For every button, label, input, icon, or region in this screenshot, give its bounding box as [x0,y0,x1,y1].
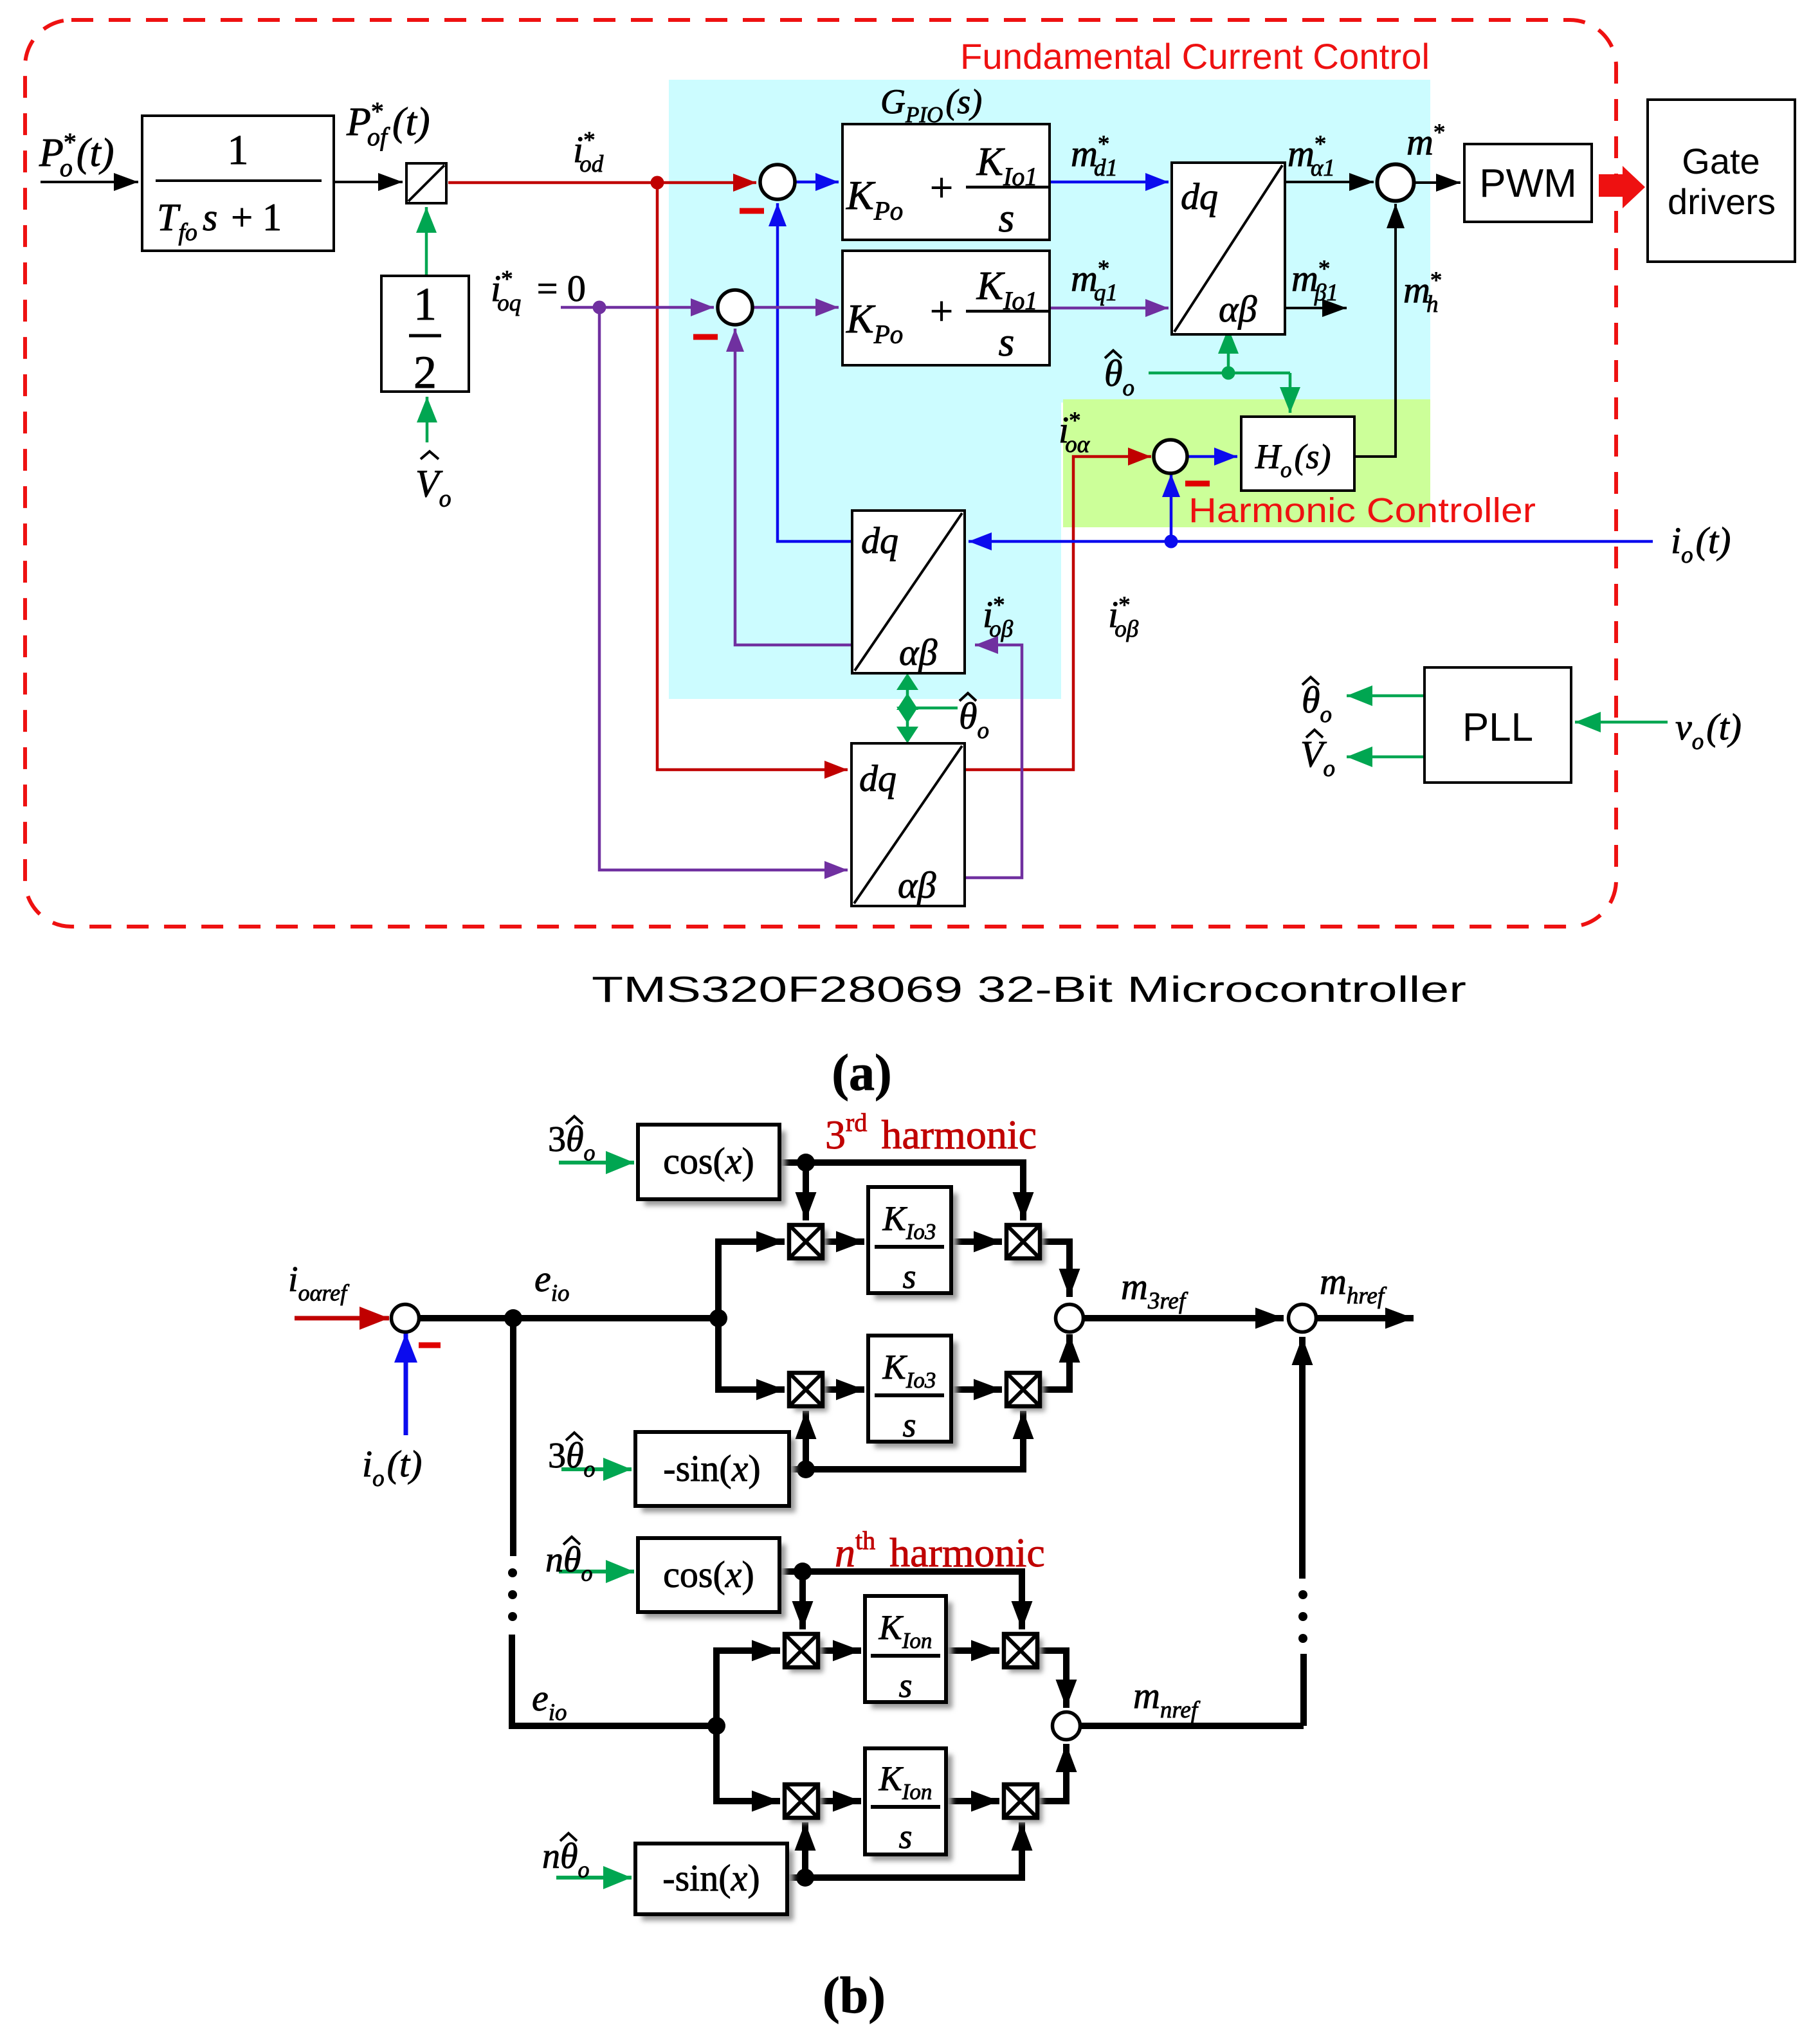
svg-text:Gate: Gate [1682,141,1760,181]
svg-text:s: s [902,1406,916,1444]
svg-text:i*oq = 0: i*oq = 0 [491,266,586,316]
svg-text:s: s [898,1666,912,1705]
svg-text:2: 2 [414,347,437,398]
svg-text:dq: dq [859,757,896,799]
svg-text:(b): (b) [823,1968,886,2024]
svg-text:αβ: αβ [1219,288,1257,330]
svg-text:1: 1 [228,127,249,174]
svg-text:+: + [930,165,953,210]
svg-text:m*h: m*h [1403,267,1442,318]
svg-text:io(t): io(t) [362,1443,422,1492]
svg-text:s: s [902,1257,916,1296]
svg-text:vo(t): vo(t) [1675,706,1742,755]
svg-text:(a): (a) [832,1045,891,1101]
svg-text:s: s [999,195,1015,240]
svg-text:dq: dq [1181,176,1218,217]
svg-text:-sin(x): -sin(x) [663,1447,760,1489]
svg-text:-sin(x): -sin(x) [662,1857,760,1899]
svg-text:TMS320F28069 32-Bit Microcontr: TMS320F28069 32-Bit Microcontroller [592,969,1466,1010]
svg-text:s: s [898,1817,912,1856]
svg-text:io(t): io(t) [1671,520,1731,568]
svg-text:+: + [930,288,953,334]
svg-text:1: 1 [414,278,437,330]
svg-text:P*o(t): P*o(t) [39,127,114,182]
svg-text:αβ: αβ [899,631,937,673]
svg-text:Harmonic Controller: Harmonic Controller [1188,491,1536,530]
svg-text:dq: dq [861,520,898,561]
svg-text:Fundamental Current Control: Fundamental Current Control [960,36,1430,77]
svg-text:drivers: drivers [1668,181,1776,222]
svg-text:PLL: PLL [1462,705,1533,750]
svg-text:cos(x): cos(x) [663,1140,754,1182]
svg-text:αβ: αβ [898,864,936,906]
svg-text:s: s [999,319,1015,365]
svg-text:PWM: PWM [1479,161,1577,206]
svg-text:cos(x): cos(x) [663,1554,754,1595]
